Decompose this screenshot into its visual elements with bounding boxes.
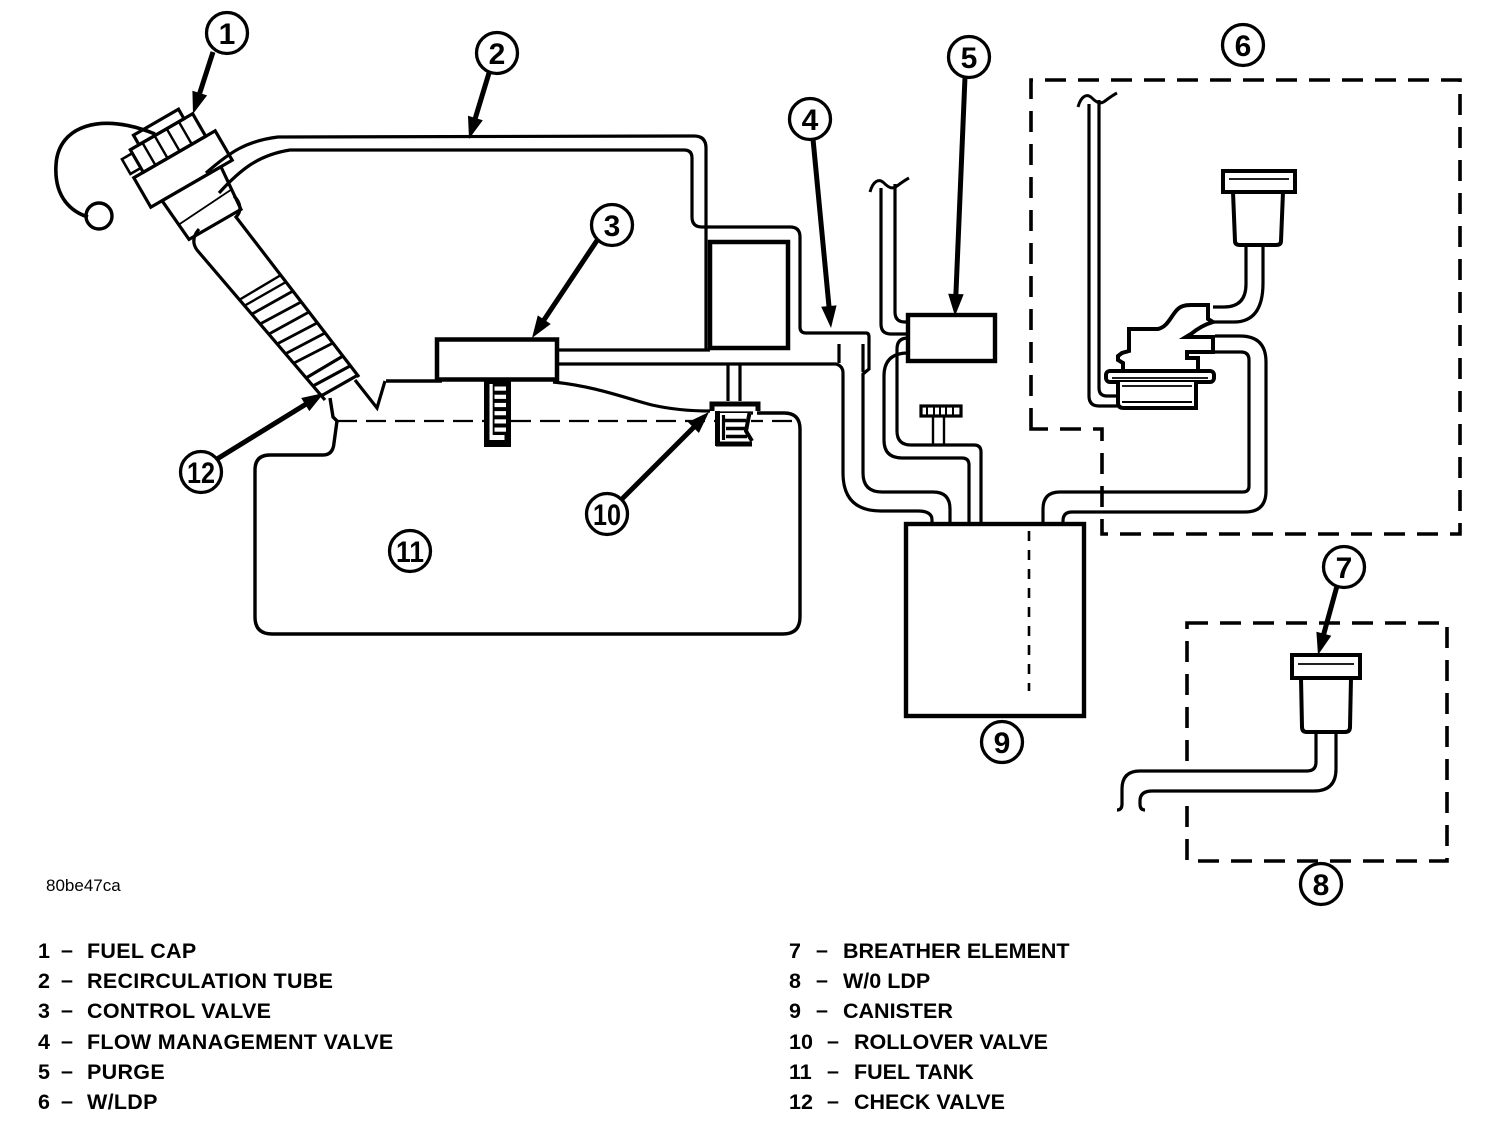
svg-text:10: 10 (593, 499, 621, 532)
svg-text:–: – (816, 968, 828, 992)
filler neck tube (194, 229, 325, 400)
svg-text:–: – (816, 938, 828, 962)
W/LDP dashed box (item 6) (1031, 80, 1460, 534)
inner rectangle between recirculation tube and tank (710, 242, 788, 348)
callout 6 label (1223, 25, 1264, 66)
recirculation tube (item 2), outer line (206, 136, 706, 351)
W/0 LDP dashed box (item 8) (1187, 623, 1447, 861)
svg-text:–: – (61, 1059, 73, 1083)
control valve hatched stem (484, 381, 511, 447)
flow management valve (item 4) inner throat lines (837, 344, 840, 363)
purge valve (item 5) body (908, 315, 995, 361)
filler neck V notch into tank (355, 380, 385, 408)
svg-text:–: – (61, 968, 73, 992)
check fitting on purge line (921, 406, 961, 445)
svg-text:FUEL CAP: FUEL CAP (87, 939, 197, 963)
callout 5 with arrow to purge valve (949, 37, 990, 78)
svg-text:7: 7 (1336, 552, 1353, 585)
svg-text:9: 9 (789, 999, 801, 1023)
breather outlet tube with end elbow (1117, 732, 1316, 810)
control valve outlet tube top line (553, 348, 710, 351)
svg-text:–: – (827, 1089, 839, 1113)
rollover valve body (712, 401, 758, 446)
break squiggle (870, 178, 909, 192)
fuel tank (item 11) outline (255, 398, 800, 634)
recirculation tube inner line continuing into flow-management header and canister tube right wall (219, 150, 950, 523)
rollover valve (item 10) stub lines (726, 365, 729, 401)
breather element cap inside W/LDP box (1223, 171, 1295, 192)
svg-text:CANISTER: CANISTER (843, 999, 953, 1023)
svg-text:–: – (827, 1059, 839, 1083)
svg-text:PURGE: PURGE (87, 1060, 165, 1084)
fuel tank top edge left of control valve (386, 379, 442, 382)
svg-text:–: – (827, 1029, 839, 1053)
vent tube with break symbol inside W/LDP box (1089, 104, 1117, 406)
svg-text:–: – (61, 938, 73, 962)
callout 1 with arrow to fuel cap (207, 13, 248, 54)
svg-text:W/0 LDP: W/0 LDP (843, 969, 930, 993)
control valve (item 3) body (437, 340, 557, 380)
tube from canister to leak detection pump (1043, 352, 1249, 524)
callout 12 with arrow to check valve (181, 452, 222, 493)
check valve (item 12) hatched band (239, 275, 333, 363)
svg-text:–: – (61, 1089, 73, 1113)
svg-text:–: – (61, 1029, 73, 1053)
leak detection pump housing (1118, 305, 1213, 371)
fuel tank top dip curve (553, 382, 710, 411)
svg-text:12: 12 (789, 1090, 813, 1114)
canister (item 9) body (906, 524, 1084, 716)
fuel cap tether strap and ring (56, 123, 155, 217)
canister internal dashed divider (1028, 531, 1031, 691)
svg-text:4: 4 (802, 104, 819, 137)
svg-text:2: 2 (38, 969, 50, 993)
svg-text:11: 11 (789, 1060, 812, 1084)
svg-text:–: – (61, 998, 73, 1022)
callout 2 with arrow to recirculation tube (477, 33, 518, 74)
svg-text:80be47ca: 80be47ca (46, 876, 121, 895)
vent tube with break symbol above purge valve (881, 188, 908, 334)
leak detection pump plate (1106, 371, 1214, 382)
svg-text:10: 10 (789, 1030, 813, 1054)
svg-text:2: 2 (489, 38, 506, 71)
tube from breather to pump (1213, 246, 1246, 307)
svg-text:3: 3 (604, 210, 621, 243)
svg-text:8: 8 (1313, 869, 1330, 902)
svg-text:1: 1 (38, 939, 50, 963)
svg-text:W/LDP: W/LDP (87, 1090, 158, 1114)
callout 8 label (1301, 864, 1342, 905)
svg-text:8: 8 (789, 969, 801, 993)
callout 3 with arrow to control valve (592, 205, 633, 246)
svg-text:FUEL TANK: FUEL TANK (854, 1060, 974, 1084)
svg-text:FLOW MANAGEMENT VALVE: FLOW MANAGEMENT VALVE (87, 1030, 393, 1054)
purge outlet tube down to canister (897, 338, 981, 523)
control valve outlet tube bottom line merging into canister tube left wall (558, 364, 932, 523)
svg-text:5: 5 (961, 42, 978, 75)
svg-text:12: 12 (187, 457, 215, 490)
callout 10 with arrow to rollover valve (587, 494, 628, 535)
svg-text:7: 7 (789, 939, 801, 963)
svg-text:9: 9 (994, 727, 1011, 760)
leak detection pump lower body (1118, 382, 1196, 408)
svg-text:4: 4 (38, 1030, 50, 1054)
check valve seat lines at neck tip (306, 356, 358, 396)
svg-text:5: 5 (38, 1060, 50, 1084)
callout 11 label (390, 531, 431, 572)
svg-text:–: – (816, 998, 828, 1022)
svg-text:ROLLOVER VALVE: ROLLOVER VALVE (854, 1030, 1048, 1054)
svg-text:BREATHER ELEMENT: BREATHER ELEMENT (843, 939, 1070, 963)
svg-text:1: 1 (219, 18, 236, 51)
callout 7 with arrow to breather element (1324, 547, 1365, 588)
svg-text:3: 3 (38, 999, 50, 1023)
break squiggle (1078, 93, 1117, 107)
callout 9 label (982, 722, 1023, 763)
svg-text:CHECK VALVE: CHECK VALVE (854, 1090, 1005, 1114)
svg-text:RECIRCULATION TUBE: RECIRCULATION TUBE (87, 969, 333, 993)
svg-text:6: 6 (38, 1090, 50, 1114)
svg-text:11: 11 (396, 536, 424, 569)
svg-text:6: 6 (1235, 30, 1252, 63)
fuel level dashed line (337, 420, 795, 422)
callout 4 with arrow to flow management valve (790, 99, 831, 140)
breather element (item 7) cap (1292, 655, 1360, 678)
svg-text:CONTROL VALVE: CONTROL VALVE (87, 999, 271, 1023)
fuel cap (item 1) head, tilted (114, 99, 255, 249)
